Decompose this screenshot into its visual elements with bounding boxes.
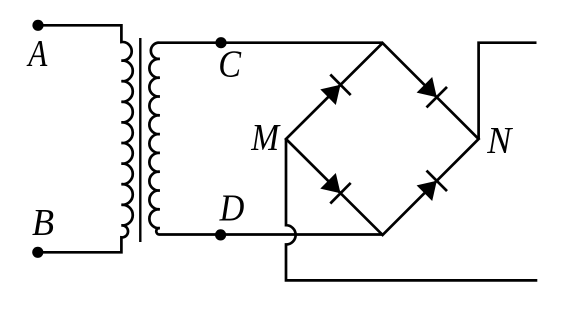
svg-text:N: N [486, 120, 513, 162]
svg-text:A: A [26, 32, 48, 75]
svg-text:C: C [218, 43, 242, 85]
svg-text:D: D [219, 187, 245, 229]
svg-text:B: B [32, 202, 54, 244]
svg-text:M: M [250, 116, 281, 158]
